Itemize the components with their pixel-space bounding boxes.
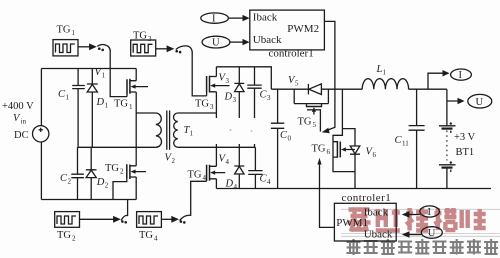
battery BT1 cell 2 xyxy=(439,164,456,166)
wire primary top xyxy=(136,112,156,114)
svg-text:L: L xyxy=(376,64,383,75)
transformer T1 core xyxy=(167,111,170,150)
svg-text:3: 3 xyxy=(226,77,230,85)
svg-text:I: I xyxy=(428,207,432,218)
meter U feedback xyxy=(421,227,442,239)
meter I top xyxy=(201,13,229,23)
transistor V1 xyxy=(127,79,130,94)
svg-text:4: 4 xyxy=(267,178,271,186)
controller PWM2 box xyxy=(250,10,325,50)
svg-text:U: U xyxy=(476,97,484,108)
svg-text:PWM2: PWM2 xyxy=(287,23,319,35)
svg-text:3: 3 xyxy=(148,35,152,43)
watermark slogan characters xyxy=(347,239,499,255)
svg-text:TG: TG xyxy=(298,117,312,128)
contact TG1 xyxy=(98,47,101,50)
wire TG1 output arrow xyxy=(78,46,90,48)
svg-text:Uback: Uback xyxy=(364,229,393,241)
wire half-bridge midpoint xyxy=(135,92,137,166)
wire TG4 output arrow xyxy=(161,218,171,220)
wire secondary-side mid rail xyxy=(178,146,256,148)
wire PWM1 output to gate V6 xyxy=(320,163,335,227)
wire U to PWM2 xyxy=(230,41,243,43)
wire secondary top xyxy=(178,112,217,114)
meter U top xyxy=(202,36,230,48)
svg-text:TG: TG xyxy=(105,163,119,174)
wire PWM2 output to gate V5 xyxy=(324,21,335,130)
switch V5 body diode xyxy=(307,84,309,95)
wire primary-side mid rail xyxy=(78,146,156,148)
wire TG2 output arrow xyxy=(80,218,114,220)
DC source V_in xyxy=(33,126,49,142)
svg-text:D: D xyxy=(96,177,105,188)
svg-text:TG: TG xyxy=(114,99,128,110)
diode D1 xyxy=(87,69,98,148)
svg-text:DC: DC xyxy=(14,130,29,141)
diode D2 xyxy=(86,147,97,199)
wire TG3 output arrow xyxy=(156,48,167,50)
svg-text:in: in xyxy=(21,118,27,126)
wire TG1 to gate V1 xyxy=(110,50,127,97)
svg-text:4: 4 xyxy=(226,158,230,166)
wire I to PWM1 xyxy=(409,214,420,216)
svg-text:Uback: Uback xyxy=(253,34,282,46)
wire bridge top rail to V5 xyxy=(216,67,271,89)
svg-text:I: I xyxy=(459,70,463,81)
wire left rail lower xyxy=(40,142,42,200)
svg-text:TG: TG xyxy=(57,25,71,36)
wire top rail primary xyxy=(41,68,136,70)
inductor L1 xyxy=(362,79,408,90)
transformer T1 primary winding xyxy=(156,113,162,147)
svg-text:controler1: controler1 xyxy=(269,48,314,60)
svg-text:1: 1 xyxy=(383,69,387,77)
svg-text:U: U xyxy=(212,38,220,49)
svg-text:D: D xyxy=(224,92,233,103)
contact TG3 xyxy=(175,50,178,53)
battery dotted link xyxy=(446,131,448,161)
transistor V3 xyxy=(207,76,210,93)
transformer T1 secondary winding xyxy=(174,113,178,147)
svg-text:TG: TG xyxy=(139,230,153,241)
svg-text:TG: TG xyxy=(312,144,326,155)
wire bottom rail secondary xyxy=(216,188,491,190)
pulse generator TG4 xyxy=(137,212,162,228)
svg-text:D: D xyxy=(96,97,105,108)
white patch over bridge centre xyxy=(214,118,268,144)
transistor V2 xyxy=(127,164,130,179)
watermark band lines xyxy=(341,209,500,236)
capacitor C2 xyxy=(71,147,84,199)
wire TG3 riser to gate V3 xyxy=(192,52,206,96)
svg-text:3: 3 xyxy=(267,94,271,102)
svg-text:+400 V: +400 V xyxy=(2,101,34,112)
svg-text:controler1: controler1 xyxy=(342,192,392,204)
wire tap to meter U xyxy=(447,89,458,126)
meter I output xyxy=(451,69,472,80)
watermark logo characters xyxy=(348,208,486,232)
pulse generator TG2 xyxy=(55,212,80,228)
wire U to PWM1 xyxy=(409,234,421,236)
svg-text:2: 2 xyxy=(105,182,109,190)
wire I to PWM2 xyxy=(228,17,243,19)
svg-text:3: 3 xyxy=(233,96,237,104)
svg-text:1: 1 xyxy=(190,130,194,138)
wire V6 source to rail xyxy=(333,157,355,188)
transistor V5 xyxy=(294,89,328,106)
svg-text:Iback: Iback xyxy=(253,12,278,24)
wire tap to meter I xyxy=(428,73,443,89)
svg-text:+3 V: +3 V xyxy=(454,132,476,143)
diode V6 body xyxy=(342,129,360,172)
svg-text:4: 4 xyxy=(154,235,158,243)
wire dc link node xyxy=(271,88,308,90)
svg-text:4: 4 xyxy=(203,174,207,182)
capacitor C11 xyxy=(409,89,425,188)
wire left rail xyxy=(40,69,42,126)
svg-text:BT1: BT1 xyxy=(456,147,475,158)
svg-text:1: 1 xyxy=(66,94,70,102)
svg-text:TG: TG xyxy=(57,230,71,241)
wire TG4 riser to gate V4 xyxy=(191,181,207,216)
pulse generator TG3 xyxy=(131,40,156,56)
svg-text:0: 0 xyxy=(288,135,292,143)
svg-text:1: 1 xyxy=(129,103,133,111)
svg-text:6: 6 xyxy=(327,148,331,156)
capacitor C1 xyxy=(72,69,85,148)
svg-text:PWM1: PWM1 xyxy=(336,217,368,229)
pulse generator TG1 xyxy=(53,40,78,56)
capacitor C3 xyxy=(247,67,261,148)
meter I feedback xyxy=(420,206,440,217)
meter U output xyxy=(468,94,492,108)
svg-text:1: 1 xyxy=(72,29,76,37)
svg-text:3: 3 xyxy=(210,103,214,111)
transistor V4 xyxy=(207,165,210,182)
transistor V6 xyxy=(333,89,355,157)
svg-text:5: 5 xyxy=(295,80,299,88)
contact TG4 xyxy=(180,220,183,223)
svg-text:4: 4 xyxy=(234,183,238,191)
svg-text:1: 1 xyxy=(102,72,106,80)
capacitor C4 xyxy=(248,147,262,188)
wire L1 to output xyxy=(409,88,447,90)
controller PWM1 box xyxy=(334,203,396,241)
battery BT1 cell 1 xyxy=(439,125,456,127)
svg-text:2: 2 xyxy=(72,235,76,243)
svg-text:U: U xyxy=(428,228,436,239)
svg-text:2: 2 xyxy=(68,178,72,186)
svg-text:6: 6 xyxy=(373,151,377,159)
svg-text:TG: TG xyxy=(133,31,147,42)
wire rectifier leg V3-V4 xyxy=(215,92,217,167)
wire bottom rail primary xyxy=(41,199,136,201)
svg-text:11: 11 xyxy=(402,140,409,148)
capacitor C0 xyxy=(271,89,284,188)
svg-text:2: 2 xyxy=(172,157,176,165)
svg-text:TG: TG xyxy=(195,99,209,110)
diode D3 xyxy=(234,67,244,148)
svg-text:TG: TG xyxy=(188,170,202,181)
svg-text:2: 2 xyxy=(120,168,124,176)
svg-text:1: 1 xyxy=(105,102,109,110)
contact TG2 xyxy=(121,220,124,223)
wire TG2 riser xyxy=(127,200,129,217)
svg-text:I: I xyxy=(212,14,216,25)
wire main output node xyxy=(321,88,362,90)
diode D4 xyxy=(234,147,244,188)
svg-text:5: 5 xyxy=(313,121,317,129)
